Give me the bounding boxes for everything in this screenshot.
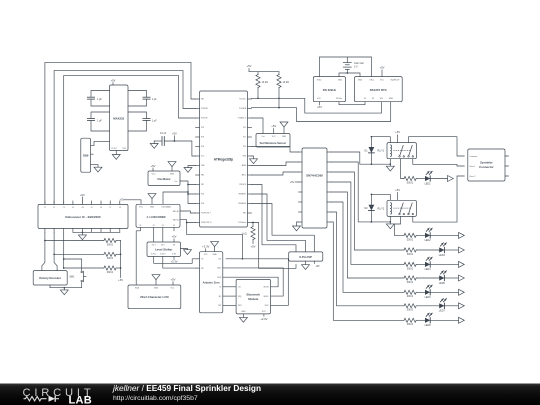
svg-text:VCC: VCC (262, 311, 267, 313)
switch SW1 (81, 271, 83, 273)
wire debouncer out3 to SW1 (63, 232, 65, 268)
wire decoder DATA to node X (163, 192, 188, 204)
power +5V LCD (172, 282, 174, 285)
power +5V debouncer (81, 197, 83, 201)
svg-text:PD4: PD4 (201, 146, 204, 148)
ground debouncer (81, 232, 83, 235)
svg-text:O2: O2 (153, 225, 155, 227)
svg-text:Soil Moisture Sensor: Soil Moisture Sensor (260, 141, 287, 145)
IC U2 ATMega328p (200, 91, 248, 227)
ground encoder (63, 288, 65, 290)
pin debouncer top C3 (63, 201, 65, 205)
svg-text:MISO: MISO (264, 296, 269, 298)
svg-text:+5V: +5V (247, 64, 252, 68)
svg-text:+5V: +5V (81, 207, 84, 209)
ground relay2 (389, 222, 391, 224)
capacitor C5 10uF bypass (154, 140, 162, 142)
resistor R3 300ohm pullup row1 (45, 240, 104, 242)
terminal T1 (448, 176, 454, 182)
wire battery top rail to V Bat pins (320, 57, 372, 77)
svg-text:5V 2: 5V 2 (161, 244, 165, 246)
wire bus to Arduino SCK (187, 223, 243, 259)
svg-text:SQW/OUT: SQW/OUT (390, 80, 400, 82)
svg-text:VCC: VCC (317, 98, 322, 100)
svg-text:Connector: Connector (479, 165, 494, 169)
terminal T3 (459, 247, 465, 253)
terminal T6 (459, 289, 465, 295)
terminal T2 (459, 232, 465, 238)
power +5V ISP (313, 261, 315, 263)
ground MCU GND left (188, 166, 196, 168)
svg-text:1 kΩ: 1 kΩ (242, 233, 247, 236)
LED LED5 (439, 275, 444, 280)
power +5V relay 1 (397, 135, 399, 143)
wire Arduino CS to bluetooth (223, 286, 236, 288)
pin MCU right 13 PB2 (248, 212, 252, 214)
pin 595 left 7 (299, 211, 303, 213)
wire SCL net MCU to RTC (252, 98, 382, 113)
pin 595 left 2 (299, 161, 303, 163)
wire MCU to 595 RCLK (252, 172, 299, 175)
terminal T7 (459, 303, 465, 309)
svg-text:SN74HC595: SN74HC595 (306, 173, 323, 177)
wire bluetooth MOSI to Arduino (223, 277, 278, 287)
wire pullup +5V rail (120, 241, 122, 278)
svg-text:GND: GND (241, 311, 246, 313)
svg-text:Bluetooth: Bluetooth (247, 292, 261, 296)
op-amp U1 MAX232 (110, 85, 129, 151)
resistor R5 300ohm pullup row3 (64, 267, 104, 269)
svg-text:RL/Y1: RL/Y1 (378, 150, 385, 153)
LED LED7 (439, 303, 444, 308)
svg-text:C2: C2 (53, 207, 55, 209)
LED LED3 (439, 247, 444, 252)
pin debouncer bottom 1 (44, 229, 46, 233)
svg-text:VCC: VCC (171, 287, 176, 289)
wire MCU to 595 SRCLK (252, 162, 299, 166)
diode D2 (370, 194, 372, 204)
pin MCU left 10 PB7 (196, 184, 200, 186)
svg-text:PB2: PB2 (243, 213, 246, 215)
svg-text:300 Ω: 300 Ω (407, 238, 414, 241)
pin MCU right 12 PB3/MOSI (248, 203, 252, 205)
pin MCU left 9 PB6 (196, 174, 200, 176)
wire debouncer out2 to encoder B (54, 232, 57, 270)
pin debouncer top C5 (91, 201, 93, 205)
wire MCU to 595 SER (252, 147, 299, 153)
svg-text:+5V: +5V (120, 198, 125, 202)
pin MCU left 6 PD4 (196, 146, 200, 148)
svg-text:20x4 Character LCD: 20x4 Character LCD (140, 295, 169, 299)
wire W3 debouncer C3 to MCU PD1/TXD (64, 75, 196, 204)
svg-text:300 Ω: 300 Ω (107, 243, 114, 246)
capacitor C3 1uF (91, 112, 110, 131)
svg-text:Out: Out (262, 135, 265, 138)
wire decoder SEL A to MCU (180, 211, 196, 213)
svg-text:300 Ω: 300 Ω (407, 253, 414, 256)
svg-text:PD2: PD2 (201, 127, 204, 129)
svg-text:GND: GND (282, 136, 287, 138)
ground level shifter (181, 249, 188, 250)
wire bluetooth MISO to Arduino (223, 268, 283, 296)
terminal T5 (459, 275, 465, 281)
wire 595 QC to LED3 row (331, 172, 405, 250)
wire Arduino RST to bluetooth (223, 304, 236, 306)
svg-text:300 Ω: 300 Ω (107, 257, 114, 260)
svg-text:+3.3V: +3.3V (202, 244, 209, 248)
pin 595 right QD (327, 181, 331, 183)
wire SW1 bottom to encoder common (50, 282, 82, 288)
svg-text:10 kΩ: 10 kΩ (262, 81, 269, 84)
resistor 300ohm LED8 (404, 318, 416, 322)
svg-text:Module: Module (248, 297, 259, 301)
svg-text:Coin Cell: Coin Cell (354, 62, 364, 65)
svg-text:Oscillator: Oscillator (157, 177, 171, 181)
wire 595 QB to relay2 coil (331, 162, 391, 222)
svg-text:LED8: LED8 (425, 324, 432, 327)
svg-text:1 µF: 1 µF (152, 98, 157, 101)
pin 595 right QC (327, 171, 331, 173)
svg-text:SCK: SCK (218, 259, 221, 261)
svg-text:GND: GND (358, 80, 363, 82)
svg-text:VCC: VCC (204, 254, 209, 256)
pin debouncer top +5V (81, 201, 83, 205)
svg-text:PB5/SCK: PB5/SCK (239, 184, 247, 186)
LED LED4 (425, 262, 430, 267)
svg-text:Rotary Encoder: Rotary Encoder (39, 276, 61, 280)
resistor 300ohm LED7 (404, 304, 416, 308)
svg-text:LED1: LED1 (425, 182, 432, 185)
pin MCU right 7 GND (248, 155, 252, 157)
power +5V decoder (125, 200, 142, 205)
power +3.3V shifter (173, 257, 175, 260)
svg-text:O3: O3 (162, 225, 164, 227)
pin MCU left 5 PD3 (196, 136, 200, 138)
pin MCU left 14 PD0/PCINT 21 (196, 222, 200, 224)
svg-text:PB6: PB6 (201, 175, 204, 177)
resistor R8 300ohm LED2 (404, 233, 416, 237)
pin debouncer top C7 (109, 201, 111, 205)
wire 595 QG to LED7 row (331, 212, 405, 306)
pin debouncer bottom 7 (100, 229, 102, 233)
pin MCU left 7 VCC (196, 155, 200, 157)
wire decoder SEL B to MCU (180, 220, 196, 223)
wire decoder O1 to LCD SDA (136, 227, 140, 285)
wire 595 QF to LED6 row (331, 202, 405, 292)
svg-text:RST: RST (218, 305, 221, 307)
ground DB9 (91, 165, 98, 168)
svg-text:LED7: LED7 (439, 310, 446, 313)
pin debouncer bottom 2 (53, 229, 55, 233)
svg-text:LED3: LED3 (439, 254, 446, 257)
svg-text:VCC: VCC (152, 173, 157, 175)
pin Arduino RX stub (196, 267, 199, 269)
power +5V relay 2 (397, 193, 399, 201)
svg-text:Out: Out (174, 180, 178, 183)
svg-text:3.3V 2: 3.3V 2 (160, 253, 165, 255)
pin MCU left 13 PD7/PCINT 7 (196, 212, 200, 214)
wire bluetooth SCK to Arduino (242, 259, 288, 306)
wire 595 QA to relay1 coil (331, 152, 391, 164)
svg-text:GND: GND (338, 80, 343, 82)
resistor 300ohm LED3 (404, 248, 416, 252)
svg-text:PD6: PD6 (201, 203, 204, 205)
pin MCU left 2 PD0/RXD (196, 108, 200, 110)
connector J2 6-pin ISP (289, 252, 323, 261)
svg-text:3 V: 3 V (354, 66, 358, 69)
wire MCU SCK to ISP (252, 185, 297, 252)
svg-text:CS: CS (219, 287, 221, 289)
svg-text:PD7/PCINT 7: PD7/PCINT 7 (201, 213, 211, 215)
wire DB9 TX to MAX232 (91, 141, 110, 145)
svg-text:+5V: +5V (380, 66, 385, 70)
pin 595 right QF (327, 201, 331, 203)
pin debouncer bottom 4 (72, 229, 74, 233)
pin debouncer top C1 (44, 201, 46, 205)
svg-text:+5V: +5V (251, 245, 256, 249)
pin 595 left 5 (299, 191, 303, 193)
svg-text:GND: GND (150, 206, 155, 208)
svg-text:LAB: LAB (69, 394, 93, 405)
svg-text:RL/Y2: RL/Y2 (378, 207, 385, 210)
svg-text:10 uF: 10 uF (160, 132, 167, 135)
capacitor C4 1uF (128, 112, 147, 131)
power +5V crystal VCC (319, 102, 321, 105)
pin MCU right 2 PC4/SDA (248, 108, 252, 110)
svg-text:+5V: +5V (80, 193, 85, 197)
battery BT1 coin cell (343, 62, 351, 64)
svg-text:+5V: +5V (172, 235, 177, 239)
pin 595 left 3 (299, 171, 303, 173)
svg-text:LED5: LED5 (439, 282, 446, 285)
capacitor C1 1uF (91, 91, 110, 107)
svg-text:32 kHz: 32 kHz (336, 98, 342, 100)
pin decoder O4 stub (173, 227, 175, 231)
svg-text:V Bat: V Bat (369, 79, 374, 82)
wire node X to MCU PD5 (188, 185, 196, 195)
power +5V RTC VCC (381, 70, 383, 77)
svg-text:PD0/PCINT 21: PD0/PCINT 21 (201, 222, 212, 224)
svg-text:+5V: +5V (111, 79, 116, 83)
power +5V level shifter (173, 239, 175, 242)
power +3.3V bluetooth (263, 314, 265, 316)
svg-text:jkellner / EE459 Final Sprinkl: jkellner / EE459 Final Sprinkler Design (112, 383, 261, 393)
pin 595 right QG (327, 211, 331, 213)
svg-text:+5V: +5V (290, 181, 295, 184)
relay K1 RLY1 (387, 143, 416, 159)
pin DB9 RX stub (91, 153, 94, 155)
pin 595 right QH (327, 221, 331, 223)
svg-text:VCC: VCC (380, 80, 385, 82)
ground C5 (153, 141, 155, 144)
wire MCU MISO to ISP (252, 194, 306, 252)
svg-text:PC0: PC0 (243, 146, 246, 148)
power +5V pullup rail (249, 68, 279, 71)
pin 595 left 6 (299, 201, 303, 203)
svg-text:C3: C3 (63, 207, 65, 209)
svg-text:PB4/MISO: PB4/MISO (238, 194, 246, 196)
board U11 Arduino Zero (199, 252, 222, 313)
svg-text:+5V: +5V (118, 278, 123, 282)
svg-text:5V 1: 5V 1 (152, 244, 156, 246)
svg-text:http://circuitlab.com/cpf35b7: http://circuitlab.com/cpf35b7 (113, 395, 198, 402)
svg-text:IRQ: IRQ (238, 296, 242, 298)
svg-text:MAX232: MAX232 (113, 117, 124, 121)
svg-text:DB9: DB9 (83, 154, 89, 158)
svg-text:VCC: VCC (139, 206, 144, 208)
svg-text:C5: C5 (91, 207, 93, 209)
svg-text:OSC/DATA: OSC/DATA (161, 205, 171, 208)
ground bluetooth (242, 314, 244, 318)
svg-text:PB3/MOSI: PB3/MOSI (238, 203, 246, 205)
pin MCU left 12 PD6 (196, 203, 200, 205)
wire oscillator Out to MCU PB7 (180, 181, 196, 185)
wire 595 QE to LED5 row (331, 192, 405, 278)
ground ISP (305, 261, 307, 265)
pin MCU left 4 PD2 (196, 127, 200, 129)
IC U4 level shifter (147, 242, 181, 257)
resistor 300ohm LED5 (404, 276, 416, 280)
pin MCU right 14 PC6/Reset (248, 222, 252, 224)
svg-text:LED2: LED2 (425, 239, 432, 242)
wire crystal 32kHz to RTC X1 (339, 102, 365, 105)
svg-text:LED6: LED6 (425, 296, 432, 299)
wire shifter 3.3V1 to Arduino TX (154, 257, 196, 264)
wire sensor Out to MCU ADC3 (252, 118, 264, 134)
svg-text:PB1: PB1 (201, 99, 204, 101)
pin Arduino TX stub (196, 258, 199, 260)
LED LED8 (425, 318, 430, 323)
svg-text:T1OUT: T1OUT (111, 148, 117, 150)
svg-text:PC5/SCL: PC5/SCL (239, 99, 246, 101)
svg-text:Arduino Zero: Arduino Zero (203, 281, 220, 285)
module U12 bluetooth (236, 279, 270, 314)
pin MCU right 4 PC2 (248, 127, 252, 129)
svg-text:C6: C6 (100, 207, 102, 209)
wire relay2 +5V rail (371, 194, 390, 200)
wire debouncer out1 to encoder A (42, 232, 45, 270)
pin 595 left 8 (299, 221, 303, 223)
sensor U9 soil moisture sensor (256, 134, 290, 148)
wire battery bottom to GND pins (339, 69, 360, 76)
svg-text:Common: Common (470, 156, 478, 158)
ground relay1 (389, 164, 391, 166)
svg-text:300 Ω: 300 Ω (407, 267, 414, 270)
svg-text:1 µF: 1 µF (97, 120, 102, 123)
pin debouncer bottom 8 (109, 229, 111, 233)
diode D1 (370, 137, 372, 147)
LED LED1 (425, 176, 430, 181)
pin 595 right QE (327, 191, 331, 193)
svg-text:C7: C7 (109, 207, 111, 209)
svg-text:GND: GND (170, 173, 175, 175)
wire decoder O3 to level shifter (162, 227, 164, 242)
wire W2 debouncer C2 to MCU PD0/RXD (54, 71, 195, 205)
svg-text:+5V: +5V (395, 130, 400, 134)
terminal T4 (459, 261, 465, 267)
svg-text:+3.3V: +3.3V (260, 317, 267, 321)
pin MCU right 9 AVCC (248, 174, 252, 176)
resistor 300ohm LED4 (404, 262, 416, 266)
svg-text:+3.3V: +3.3V (170, 260, 177, 264)
svg-text:1 µF: 1 µF (97, 98, 102, 101)
svg-text:+5V: +5V (172, 131, 177, 135)
power +5V oscillator (152, 168, 154, 171)
pin sprinkler right stubs (505, 156, 509, 176)
svg-text:Zone 1: Zone 1 (470, 166, 476, 168)
svg-text:4->1 DECODER: 4->1 DECODER (147, 215, 166, 219)
svg-text:PC1: PC1 (243, 137, 246, 139)
svg-text:+5V: +5V (151, 164, 156, 168)
pin debouncer bottom 6 (91, 229, 93, 233)
pin MCU left 8 GND (196, 165, 200, 167)
svg-text:300 Ω: 300 Ω (107, 271, 114, 274)
IC U8 DS1307 RTC (354, 77, 402, 102)
svg-text:+5V: +5V (315, 265, 320, 268)
resistor 300ohm LED6 (404, 290, 416, 294)
ground 595 (297, 222, 299, 226)
power +5V MAX232 (112, 83, 114, 85)
LED LED2 (425, 233, 430, 238)
pin 595 right QB (327, 161, 331, 163)
svg-text:10 kΩ: 10 kΩ (283, 81, 290, 84)
terminal T8 (459, 317, 465, 323)
svg-text:LED4: LED4 (425, 268, 432, 271)
ground oscillator (171, 167, 173, 171)
resistor R6 1k reset pullup (252, 223, 254, 227)
IC U10 SN74HC595 (302, 148, 327, 228)
svg-text:+5V: +5V (317, 105, 322, 109)
rotary encoder ENC1 (33, 271, 67, 285)
IC U6 debouncer EBC2000 (38, 204, 128, 228)
wire shifter 3.3V2 to Arduino RX (163, 257, 196, 269)
pin debouncer bottom 5 (81, 229, 83, 233)
wire Arduino IRQ to bluetooth (223, 295, 236, 297)
pin MCU left 3 PD1/TXD (196, 117, 200, 119)
pin debouncer top C8 (119, 201, 121, 205)
wire relay2 switch to LED2 row (394, 216, 404, 235)
pin 595 left 1 (299, 151, 303, 153)
ground LCD (155, 280, 157, 285)
ground MAX232 (115, 151, 117, 155)
svg-text:1 µF: 1 µF (152, 120, 157, 123)
power +5V 595 (295, 181, 298, 183)
wire relay1 switch to zone 1 (413, 159, 465, 166)
svg-text:X1: X1 (364, 98, 366, 100)
svg-text:SW1: SW1 (69, 276, 75, 279)
svg-text:GND: GND (212, 254, 217, 256)
wire decoder O2 to level shifter (153, 227, 155, 242)
svg-text:PD5: PD5 (201, 194, 204, 196)
wire relay1 NO to sprinkler common (409, 137, 465, 156)
svg-text:300 Ω: 300 Ω (407, 323, 414, 326)
wire 595 QH to LED8 row (331, 222, 405, 320)
pin debouncer bottom 9 (119, 229, 121, 233)
svg-text:MOSI: MOSI (217, 277, 221, 279)
pin 595 left 4 (299, 181, 303, 183)
wire relay1 switch to LED1 (401, 159, 405, 179)
svg-text:SCL: SCL (380, 98, 384, 100)
pin debouncer bottom 3 (63, 229, 65, 233)
pin MCU right 1 PC5/SCL (248, 98, 252, 100)
wire W1 debouncer C1 to MCU PB1 (45, 62, 196, 204)
svg-text:300 Ω: 300 Ω (407, 281, 414, 284)
svg-text:MOSI: MOSI (264, 287, 269, 289)
power +3.3V Arduino (205, 249, 207, 252)
wire debouncer ground bus (73, 231, 120, 233)
svg-text:O4: O4 (173, 225, 175, 227)
pin MCU right 10 PB5/SCK (248, 184, 252, 186)
